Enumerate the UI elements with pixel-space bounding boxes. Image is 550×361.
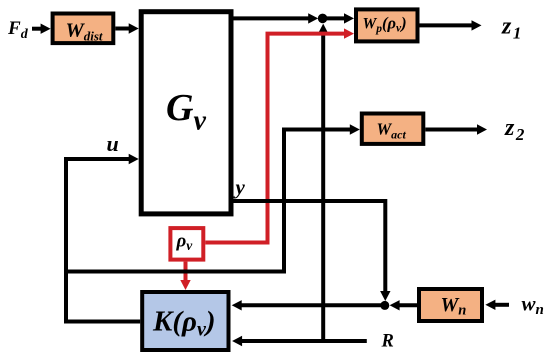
block K(rho_v)	[142, 292, 228, 350]
block W_n	[419, 289, 482, 321]
wire u feedback loop (K out, left, up, into Gv)	[66, 154, 140, 322]
wire Wact to z2	[425, 124, 487, 134]
wire y output down to lower junction	[232, 201, 391, 301]
junction dot lower	[380, 301, 389, 310]
svg-text:K(ρv): K(ρv)	[152, 306, 216, 341]
wire u branch to W_act	[66, 124, 360, 271]
red wire rho_v down to K	[180, 262, 190, 290]
red wire rho_v to Wp	[205, 28, 354, 242]
wire Wn to lower junction	[390, 300, 417, 310]
block W_act	[362, 114, 424, 144]
wire Fd to Wdist	[32, 24, 51, 34]
wire lower junction to K	[232, 300, 382, 310]
wire R to K	[232, 336, 367, 346]
wire Wdist to Gv	[115, 23, 138, 33]
junction dot top	[318, 14, 328, 24]
wire junction to Wp	[325, 13, 354, 23]
wire Wp to z1	[420, 20, 482, 30]
wire wn to Wn	[485, 300, 509, 310]
block G_v	[141, 12, 231, 214]
svg-text:R: R	[381, 332, 394, 352]
wire R line up to top junction	[318, 24, 328, 341]
block W_dist	[53, 14, 114, 44]
block rho_v (red)	[170, 228, 203, 260]
block W_p	[356, 9, 418, 41]
wire Gv top output to junction	[232, 13, 318, 23]
svg-text:u: u	[107, 131, 119, 156]
